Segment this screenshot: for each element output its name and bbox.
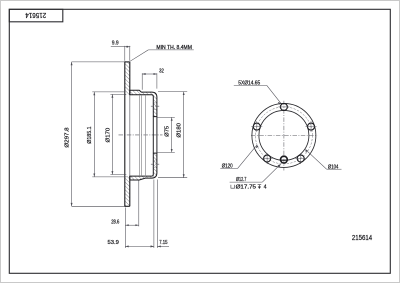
dim 32 [141, 73, 143, 90]
dim 28.6 [124, 208, 126, 249]
axis centerline [119, 134, 163, 136]
dim dia170 [110, 93, 126, 95]
hub outer circle [252, 103, 316, 167]
svg-text:Ø180: Ø180 [177, 123, 183, 138]
svg-text:Ø75: Ø75 [165, 126, 171, 137]
dim MIN TH leader [130, 50, 148, 61]
disc friction ring (hatched bar) [125, 62, 130, 95]
svg-text:215614: 215614 [25, 11, 46, 20]
counterbore note line [231, 185, 267, 191]
bolt holes 5 x dia14.65 [253, 103, 314, 162]
dim 7.15 stub [157, 245, 169, 247]
hat bottom band (hatched) [130, 153, 157, 180]
svg-text:7.15: 7.15 [159, 240, 167, 246]
svg-text:Ø185.1: Ø185.1 [87, 127, 93, 144]
drum interior lines [138, 95, 140, 175]
svg-text:Ø120: Ø120 [222, 164, 233, 170]
dim texts left view [65, 40, 192, 245]
dim 53.9 [153, 180, 155, 249]
svg-text:Ø297.8: Ø297.8 [65, 127, 71, 147]
bolt hole cross ticks [251, 107, 316, 164]
svg-text:Ø12.7: Ø12.7 [236, 177, 246, 183]
dim dia297.8 [72, 61, 125, 63]
hat top band (hatched) [130, 90, 157, 116]
svg-text:4: 4 [264, 185, 267, 191]
svg-text:9.9: 9.9 [112, 40, 119, 46]
svg-text:5XØ14.65: 5XØ14.65 [238, 80, 260, 86]
dim dia185.1 [92, 91, 125, 93]
svg-text:Ø170: Ø170 [106, 128, 112, 143]
title box [9, 9, 63, 21]
hub bore wall lines (through centre hole) [152, 117, 154, 154]
bolt hole (hidden) bottom [153, 160, 157, 162]
bolt hole (hidden) top [153, 102, 157, 104]
svg-text:Ø17.75: Ø17.75 [236, 185, 256, 191]
centerlines [283, 101, 285, 171]
svg-text:53.9: 53.9 [108, 240, 119, 246]
svg-text:Ø104: Ø104 [328, 164, 339, 170]
svg-text:MIN TH. 8.4MM: MIN TH. 8.4MM [156, 45, 192, 51]
dim 9.9 [124, 46, 126, 61]
dim dia75 [157, 116, 175, 118]
locating pin hole dia12.7 with counterbore (bold ring) [281, 156, 288, 163]
arrowheads left view [71, 46, 185, 248]
svg-text:32: 32 [159, 69, 164, 75]
svg-text:215614: 215614 [352, 235, 372, 242]
dim dia180 [158, 91, 187, 93]
svg-text:28.6: 28.6 [111, 220, 119, 226]
leaders + labels right view [220, 85, 341, 182]
hub inner circle [259, 110, 309, 160]
bolt circle dia120 (dashed) [255, 107, 312, 164]
